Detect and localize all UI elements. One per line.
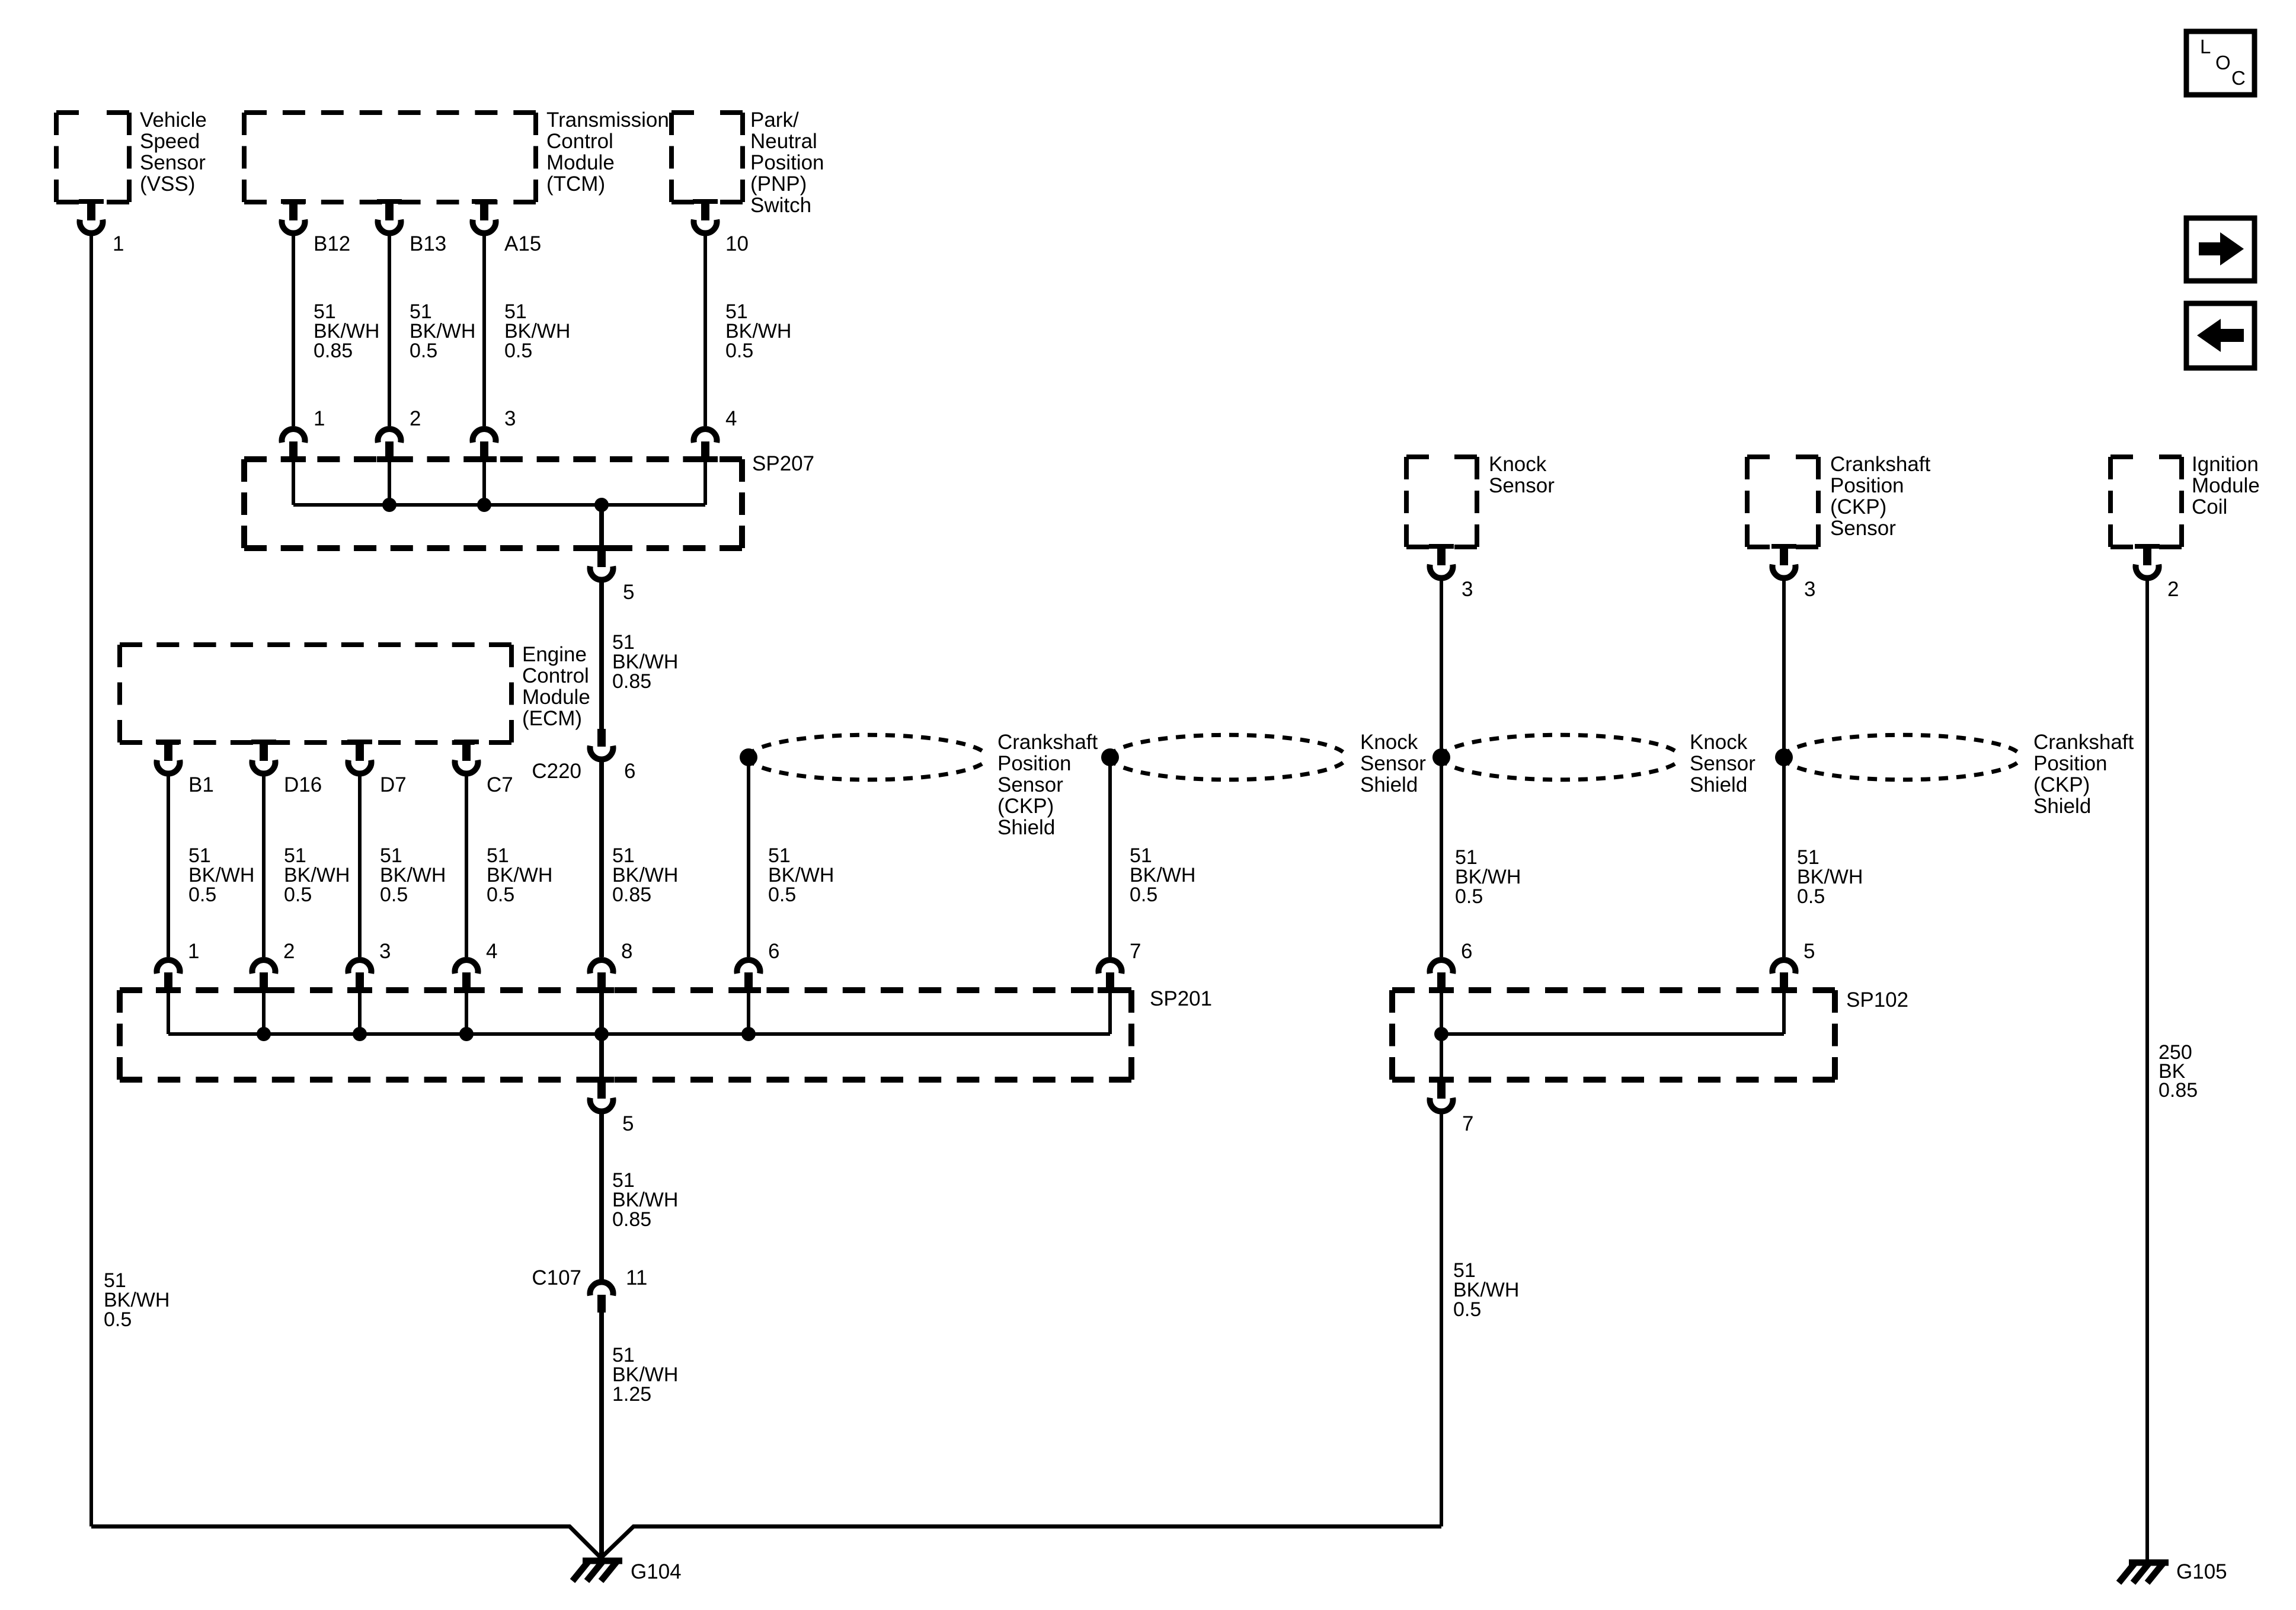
svg-text:Sensor: Sensor bbox=[140, 151, 206, 174]
connector: ECM pin B1 bbox=[156, 740, 214, 796]
label: Crankshaft Position Sensor (CKP) Shield bbox=[997, 731, 1098, 839]
svg-text:B1: B1 bbox=[188, 773, 214, 796]
svg-text:Vehicle: Vehicle bbox=[140, 108, 207, 132]
wire: SP102 internal bus bbox=[1441, 991, 1784, 1077]
svg-text:Crankshaft: Crankshaft bbox=[2033, 731, 2134, 754]
node: knock shield junction dot (mid) bbox=[1101, 748, 1119, 766]
connector: SP201 pin 1 bbox=[156, 940, 199, 993]
svg-text:Engine: Engine bbox=[522, 643, 587, 666]
wire label 51 BK/WH 0.5 (D16) bbox=[284, 844, 350, 906]
svg-text:7: 7 bbox=[1462, 1112, 1473, 1135]
node: CKP shield junction dot (left) bbox=[740, 748, 757, 766]
svg-text:0.5: 0.5 bbox=[487, 884, 514, 906]
svg-text:0.5: 0.5 bbox=[104, 1308, 132, 1331]
svg-text:L: L bbox=[2200, 36, 2211, 57]
svg-text:A15: A15 bbox=[504, 232, 541, 255]
svg-text:Speed: Speed bbox=[140, 130, 200, 153]
wire: CKP shield to SP201 pin 6 bbox=[747, 757, 750, 957]
svg-text:6: 6 bbox=[624, 760, 635, 783]
svg-text:Sensor: Sensor bbox=[997, 773, 1063, 796]
svg-text:0.85: 0.85 bbox=[2159, 1079, 2198, 1102]
junction dot SP207/B13 bbox=[382, 498, 396, 512]
svg-text:3: 3 bbox=[504, 407, 516, 430]
shield ellipse: Knock Sensor Shield (right) bbox=[1441, 735, 1677, 780]
wire: ignition coil to G105 bbox=[2145, 581, 2149, 1561]
icon: arrow right box bbox=[2186, 218, 2255, 281]
wire label 51 BK/WH 0.5 (below SP102) bbox=[1453, 1259, 1519, 1321]
svg-text:Position: Position bbox=[750, 151, 824, 174]
connector: SP201 pin 6 bbox=[736, 940, 779, 993]
wire label 51 BK/WH 0.5 (VSS wire) bbox=[104, 1269, 170, 1331]
splice box SP201 bbox=[120, 987, 1212, 1080]
component box: Park/Neutral Position (PNP) Switch bbox=[671, 108, 824, 217]
svg-text:2: 2 bbox=[2167, 578, 2179, 601]
label: Knock Sensor Shield (mid) bbox=[1360, 731, 1426, 796]
wire: SP102 pin 7 to ground bus bbox=[1440, 1114, 1443, 1526]
connector: SP102 pin 5 bbox=[1771, 940, 1815, 993]
wire label 51 BK/WH 0.85 (B12) bbox=[314, 300, 379, 362]
wire: ground bus to G104 bbox=[91, 1526, 1441, 1558]
svg-text:6: 6 bbox=[1461, 940, 1472, 963]
svg-text:1: 1 bbox=[188, 940, 199, 963]
label: Crankshaft Position (CKP) Shield bbox=[2033, 731, 2134, 818]
ground G104 bbox=[573, 1560, 682, 1583]
svg-text:Position: Position bbox=[1830, 474, 1904, 497]
wire label 51 BK/WH 0.5 (C7) bbox=[487, 844, 552, 906]
label: Knock Sensor Shield (right) bbox=[1690, 731, 1755, 796]
svg-text:1.25: 1.25 bbox=[612, 1383, 651, 1406]
svg-text:Sensor: Sensor bbox=[1690, 752, 1755, 775]
svg-text:4: 4 bbox=[725, 407, 737, 430]
svg-text:0.5: 0.5 bbox=[380, 884, 408, 906]
svg-text:0.85: 0.85 bbox=[612, 1208, 651, 1231]
svg-text:Switch: Switch bbox=[750, 194, 811, 217]
svg-text:C220: C220 bbox=[532, 760, 581, 783]
svg-text:0.5: 0.5 bbox=[725, 340, 753, 362]
wire label 51 BK/WH 0.5 (D7) bbox=[380, 844, 446, 906]
svg-text:Module: Module bbox=[2192, 474, 2260, 497]
wire label 51 BK/WH 0.5 (CKP) bbox=[1797, 846, 1863, 908]
svg-text:0.5: 0.5 bbox=[284, 884, 312, 906]
svg-text:SP201: SP201 bbox=[1150, 987, 1212, 1010]
wire label 51 BK/WH 0.5 (knock) bbox=[1455, 846, 1521, 908]
svg-text:Knock: Knock bbox=[1360, 731, 1418, 754]
svg-text:Crankshaft: Crankshaft bbox=[1830, 453, 1931, 476]
wire: SP201 internal bus bbox=[168, 991, 1110, 1077]
svg-text:Shield: Shield bbox=[1360, 773, 1418, 796]
svg-text:(CKP): (CKP) bbox=[2033, 773, 2090, 796]
component box: Ignition Module Coil bbox=[2110, 453, 2260, 547]
svg-text:SP102: SP102 bbox=[1846, 988, 1908, 1012]
connector: SP102 pin 6 bbox=[1429, 940, 1472, 993]
svg-text:Module: Module bbox=[522, 686, 590, 709]
wire: knock shield to SP201 pin 7 bbox=[1108, 757, 1112, 957]
svg-text:Crankshaft: Crankshaft bbox=[997, 731, 1098, 754]
svg-text:0.5: 0.5 bbox=[410, 340, 437, 362]
wire label 51 BK/WH 0.5 (shield mid) bbox=[1130, 844, 1195, 906]
svg-text:Position: Position bbox=[2033, 752, 2108, 775]
svg-text:5: 5 bbox=[623, 581, 634, 604]
svg-text:SP207: SP207 bbox=[752, 452, 814, 475]
shield ellipse: Crankshaft Position (CKP) Shield bbox=[1784, 735, 2017, 780]
svg-text:0.5: 0.5 bbox=[1797, 885, 1825, 908]
connector: SP207 pin 2 bbox=[377, 407, 421, 462]
svg-text:C: C bbox=[2231, 67, 2246, 89]
svg-text:(TCM): (TCM) bbox=[546, 172, 605, 196]
wire label 51 BK/WH 0.5 (A15) bbox=[504, 300, 570, 362]
wire label 51 BK/WH 0.85 (above C107) bbox=[612, 1169, 678, 1231]
svg-text:0.5: 0.5 bbox=[768, 884, 796, 906]
svg-text:3: 3 bbox=[379, 940, 391, 963]
svg-text:D16: D16 bbox=[284, 773, 322, 796]
wire label 51 BK/WH 1.25 bbox=[612, 1344, 678, 1406]
wire: PNP pin 10 to SP207 pin 4 bbox=[703, 236, 707, 426]
component box: Vehicle Speed Sensor (VSS) bbox=[56, 108, 207, 202]
svg-text:0.5: 0.5 bbox=[504, 340, 532, 362]
svg-text:Sensor: Sensor bbox=[1360, 752, 1426, 775]
wire label 51 BK/WH 0.85 (above C220) bbox=[612, 631, 678, 693]
icon: LOC box bbox=[2186, 31, 2255, 95]
connector: ECM pin D16 bbox=[251, 740, 322, 796]
svg-text:2: 2 bbox=[410, 407, 421, 430]
svg-text:Control: Control bbox=[522, 664, 589, 687]
component box: Knock Sensor bbox=[1406, 453, 1555, 547]
svg-text:(CKP): (CKP) bbox=[1830, 495, 1886, 518]
wire label 250 BK 0.85 bbox=[2159, 1041, 2198, 1102]
svg-text:D7: D7 bbox=[380, 773, 407, 796]
svg-text:0.5: 0.5 bbox=[1455, 885, 1483, 908]
junction dot SP207/A15 bbox=[477, 498, 491, 512]
wire: C220 to SP201 pin 8 bbox=[599, 762, 604, 957]
wire: C107 to G104 bbox=[599, 1313, 604, 1558]
wire: ECM C7 to SP201 pin 4 bbox=[465, 776, 468, 957]
icon: arrow left box bbox=[2186, 303, 2255, 368]
connector: TCM pin B13 bbox=[377, 199, 446, 255]
connector: Knock Sensor pin 3 bbox=[1429, 544, 1473, 601]
component box: Engine Control Module (ECM) bbox=[120, 643, 590, 742]
svg-text:0.5: 0.5 bbox=[188, 884, 216, 906]
svg-text:8: 8 bbox=[621, 940, 632, 963]
junction dot SP201/trunk bbox=[594, 1027, 609, 1041]
svg-text:B13: B13 bbox=[410, 232, 446, 255]
connector: SP201 pin 4 bbox=[454, 940, 497, 993]
svg-text:Neutral: Neutral bbox=[750, 130, 817, 153]
svg-text:Ignition: Ignition bbox=[2192, 453, 2259, 476]
svg-text:0.85: 0.85 bbox=[612, 670, 651, 693]
node: CKP shield junction dot (right) bbox=[1775, 748, 1793, 766]
component box: Transmission Control Module (TCM) bbox=[244, 108, 669, 202]
svg-text:O: O bbox=[2215, 52, 2231, 73]
wire: knock sensor to SP102 pin 6 bbox=[1440, 581, 1443, 957]
svg-text:1: 1 bbox=[113, 232, 124, 255]
connector: SP201 pin 3 bbox=[347, 940, 391, 993]
svg-text:5: 5 bbox=[1803, 940, 1815, 963]
splice box SP207 bbox=[244, 452, 814, 548]
svg-text:5: 5 bbox=[622, 1112, 634, 1135]
wire: TCM A15 to SP207 pin 3 bbox=[482, 236, 486, 426]
svg-text:0.5: 0.5 bbox=[1130, 884, 1157, 906]
svg-text:0.85: 0.85 bbox=[612, 884, 651, 906]
junction dot SP201/D7 bbox=[353, 1027, 367, 1041]
svg-text:3: 3 bbox=[1462, 578, 1473, 601]
wire: ECM D7 to SP201 pin 3 bbox=[358, 776, 362, 957]
svg-text:0.85: 0.85 bbox=[314, 340, 353, 362]
wire: TCM B13 to SP207 pin 2 bbox=[388, 236, 391, 426]
svg-text:Shield: Shield bbox=[1690, 773, 1747, 796]
svg-text:C107: C107 bbox=[532, 1266, 581, 1289]
wire: SP207 pin 5 to C220 bbox=[599, 582, 604, 729]
svg-text:Sensor: Sensor bbox=[1830, 517, 1896, 540]
svg-text:Module: Module bbox=[546, 151, 615, 174]
svg-text:10: 10 bbox=[725, 232, 749, 255]
component box: Crankshaft Position (CKP) Sensor bbox=[1747, 453, 1931, 547]
svg-text:1: 1 bbox=[314, 407, 325, 430]
connector C107 pin 11 bbox=[532, 1266, 647, 1313]
junction dot SP207/trunk bbox=[594, 498, 609, 512]
svg-text:(ECM): (ECM) bbox=[522, 707, 582, 730]
connector: TCM pin B12 bbox=[281, 199, 350, 255]
svg-text:(CKP): (CKP) bbox=[997, 795, 1054, 818]
connector: ECM pin D7 bbox=[347, 740, 407, 796]
svg-text:Knock: Knock bbox=[1489, 453, 1547, 476]
connector: CKP Sensor pin 3 bbox=[1771, 544, 1815, 601]
svg-text:Control: Control bbox=[546, 130, 613, 153]
wire: CKP sensor to SP102 pin 5 bbox=[1782, 581, 1786, 957]
svg-text:Sensor: Sensor bbox=[1489, 474, 1555, 497]
shield ellipse: Knock Sensor Shield (mid) bbox=[1110, 735, 1343, 780]
connector: SP207 pin 1 bbox=[281, 407, 325, 462]
connector: VSS pin 1 bbox=[79, 199, 124, 255]
svg-text:11: 11 bbox=[626, 1266, 647, 1289]
svg-text:G104: G104 bbox=[631, 1560, 682, 1583]
connector: SP102 pin 7 bbox=[1429, 1077, 1473, 1135]
junction dot SP201/D16 bbox=[257, 1027, 271, 1041]
connector: Ignition Module Coil pin 2 bbox=[2135, 544, 2179, 601]
connector C220 pin 6 bbox=[532, 729, 635, 783]
junction dot SP102 bbox=[1434, 1027, 1448, 1041]
ground G105 bbox=[2119, 1560, 2227, 1583]
shield ellipse: Crankshaft Position Sensor (CKP) Shield bbox=[749, 735, 984, 780]
wire: ECM B1 to SP201 pin 1 bbox=[167, 776, 170, 957]
connector: TCM pin A15 bbox=[472, 199, 541, 255]
junction dot SP201/shield bbox=[741, 1027, 756, 1041]
wire label 51 BK/WH 0.5 (shield left) bbox=[768, 844, 834, 906]
svg-text:7: 7 bbox=[1130, 940, 1141, 963]
junction dot SP201/C7 bbox=[459, 1027, 474, 1041]
svg-text:(PNP): (PNP) bbox=[750, 172, 807, 196]
connector: ECM pin C7 bbox=[454, 740, 513, 796]
wire: SP207 internal bus bbox=[293, 460, 705, 546]
connector: SP201 pin 2 bbox=[251, 940, 295, 993]
svg-text:6: 6 bbox=[768, 940, 779, 963]
wire: ECM D16 to SP201 pin 2 bbox=[262, 776, 266, 957]
svg-text:Shield: Shield bbox=[997, 816, 1055, 839]
svg-text:Position: Position bbox=[997, 752, 1072, 775]
wire label 51 BK/WH 0.85 (below C220) bbox=[612, 844, 678, 906]
svg-text:0.5: 0.5 bbox=[1453, 1298, 1481, 1321]
wire label 51 BK/WH 0.5 (B13) bbox=[410, 300, 475, 362]
svg-text:3: 3 bbox=[1804, 578, 1815, 601]
svg-text:Coil: Coil bbox=[2192, 495, 2227, 518]
svg-text:Knock: Knock bbox=[1690, 731, 1748, 754]
wire: VSS pin 1 down to ground bus bbox=[89, 236, 93, 1526]
wire label 51 BK/WH 0.5 (PNP) bbox=[725, 300, 791, 362]
svg-text:(VSS): (VSS) bbox=[140, 172, 195, 196]
connector: PNP pin 10 bbox=[693, 199, 749, 255]
connector: SP207 pin 4 bbox=[693, 407, 737, 462]
wire: SP201 pin 5 to C107 bbox=[599, 1114, 604, 1280]
svg-text:G105: G105 bbox=[2176, 1560, 2227, 1583]
svg-text:Park/: Park/ bbox=[750, 108, 799, 132]
connector: SP207 pin 5 bbox=[589, 545, 634, 604]
node: knock shield junction dot (right) bbox=[1432, 748, 1450, 766]
svg-text:C7: C7 bbox=[487, 773, 513, 796]
svg-text:Shield: Shield bbox=[2033, 795, 2091, 818]
wire label 51 BK/WH 0.5 (B1) bbox=[188, 844, 254, 906]
wire: TCM B12 to SP207 pin 1 bbox=[292, 236, 295, 426]
connector: SP201 pin 8 bbox=[589, 940, 632, 993]
connector: SP201 pin 7 bbox=[1098, 940, 1141, 993]
svg-text:2: 2 bbox=[283, 940, 295, 963]
svg-text:B12: B12 bbox=[314, 232, 350, 255]
connector: SP207 pin 3 bbox=[472, 407, 516, 462]
svg-text:4: 4 bbox=[486, 940, 497, 963]
svg-text:Transmission: Transmission bbox=[546, 108, 669, 132]
connector: SP201 pin 5 bbox=[589, 1077, 634, 1135]
splice box SP102 bbox=[1392, 988, 1908, 1080]
